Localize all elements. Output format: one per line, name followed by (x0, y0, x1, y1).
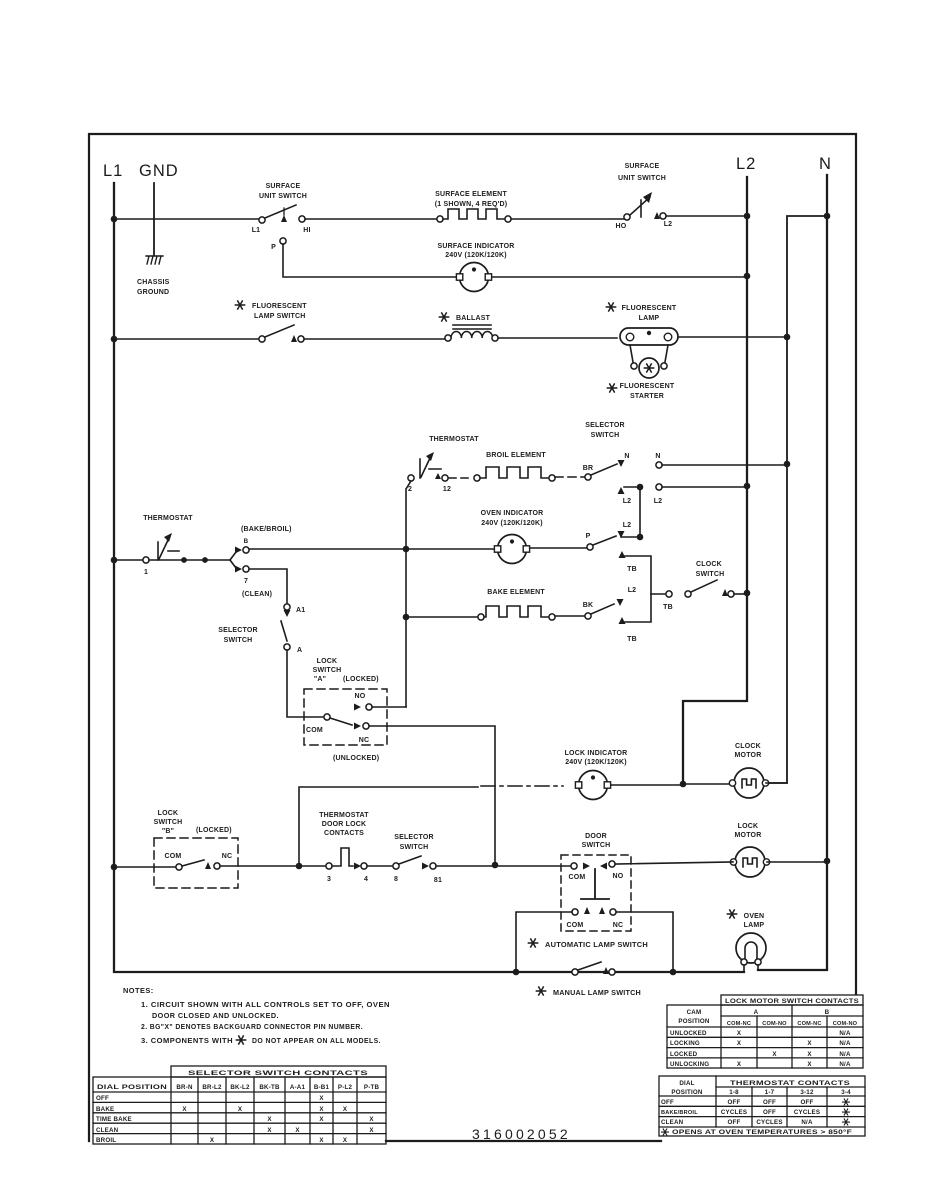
svg-text:OFF: OFF (801, 1099, 814, 1106)
svg-text:DOOR: DOOR (585, 833, 607, 840)
svg-text:SWITCH: SWITCH (313, 667, 342, 674)
wire to door lock contacts (220, 865, 326, 867)
svg-text:SELECTOR: SELECTOR (394, 834, 434, 841)
switch: surface unit switch left (252, 183, 311, 234)
junction manual row right (670, 969, 677, 976)
svg-text:DIAL POSITION: DIAL POSITION (97, 1084, 167, 1091)
svg-text:BAKE ELEMENT: BAKE ELEMENT (487, 589, 545, 596)
svg-text:(LOCKED): (LOCKED) (343, 676, 379, 683)
svg-text:P: P (271, 244, 276, 251)
svg-text:BK: BK (583, 602, 594, 609)
pin P selector terminal (587, 544, 593, 550)
svg-text:SURFACE: SURFACE (625, 163, 660, 170)
svg-text:LAMP: LAMP (744, 922, 765, 929)
lamp: fluorescent starter (607, 345, 674, 400)
svg-text:P-L2: P-L2 (338, 1084, 353, 1091)
svg-text:N: N (655, 453, 660, 460)
wire lock motor to N (767, 861, 827, 863)
svg-text:X: X (319, 1137, 324, 1144)
svg-text:81: 81 (434, 877, 442, 884)
svg-text:OPENS AT OVEN TEMPERATURES > 8: OPENS AT OVEN TEMPERATURES > 850°F (672, 1129, 852, 1136)
svg-text:P-TB: P-TB (364, 1084, 380, 1091)
svg-text:OFF: OFF (763, 1099, 776, 1106)
wire door NC2 drop (616, 912, 673, 972)
chassis ground (146, 256, 163, 264)
svg-text:316002052: 316002052 (472, 1126, 571, 1142)
svg-text:(1 SHOWN, 4 REQ'D): (1 SHOWN, 4 REQ'D) (435, 201, 508, 208)
svg-text:SURFACE ELEMENT: SURFACE ELEMENT (435, 191, 507, 198)
svg-text:NOTES:: NOTES: (123, 986, 154, 995)
svg-text:B-B1: B-B1 (314, 1084, 330, 1091)
wire row1 to element (305, 218, 437, 220)
svg-text:NO: NO (613, 873, 624, 880)
svg-text:COM: COM (165, 853, 182, 860)
svg-text:1. CIRCUIT SHOWN WITH ALL CONT: 1. CIRCUIT SHOWN WITH ALL CONTROLS SET T… (141, 1000, 390, 1009)
wire switch to ballast (304, 338, 448, 340)
svg-text:UNLOCKED: UNLOCKED (670, 1030, 707, 1037)
junction N feed/fluorescent row (784, 334, 791, 341)
switch arm BR (591, 464, 617, 475)
wire NO to vertical (372, 706, 406, 708)
wire lock indicator feed (299, 787, 478, 864)
svg-text:N: N (624, 453, 629, 460)
svg-text:BR-L2: BR-L2 (202, 1084, 222, 1091)
GND stub wire (153, 183, 155, 255)
lamp: lock indicator (565, 750, 628, 800)
wire to clock motor (683, 783, 732, 785)
svg-text:FLUORESCENT: FLUORESCENT (620, 383, 675, 390)
svg-text:1-8: 1-8 (729, 1089, 739, 1096)
svg-text:X: X (343, 1106, 348, 1113)
svg-text:FLUORESCENT: FLUORESCENT (252, 303, 307, 310)
svg-text:COM-NO: COM-NO (833, 1021, 858, 1027)
svg-text:MANUAL LAMP SWITCH: MANUAL LAMP SWITCH (553, 990, 641, 997)
svg-text:OVEN INDICATOR: OVEN INDICATOR (481, 510, 544, 517)
svg-text:L1: L1 (252, 227, 261, 234)
svg-text:L2: L2 (623, 522, 632, 529)
inductor: ballast (439, 313, 498, 341)
svg-text:3. COMPONENTS WITH: 3. COMPONENTS WITH (141, 1036, 233, 1045)
wire dashed element to BR (555, 476, 584, 478)
switch arm BK (591, 604, 614, 614)
switch arm P (593, 536, 616, 545)
L1 bus (114, 183, 744, 972)
svg-text:X: X (772, 1051, 777, 1058)
svg-text:SURFACE INDICATOR: SURFACE INDICATOR (437, 243, 514, 250)
svg-text:L2: L2 (664, 221, 673, 228)
lamp: fluorescent lamp (606, 303, 678, 345)
svg-text:L2: L2 (623, 498, 632, 505)
pin BR selector terminal (585, 474, 591, 480)
switch: selector switch A1-A (218, 604, 305, 654)
junction manual row left (513, 969, 520, 976)
switch: fluorescent lamp switch (235, 301, 307, 342)
svg-text:SWITCH: SWITCH (154, 819, 183, 826)
svg-text:COM-NC: COM-NC (797, 1021, 821, 1027)
junction L2 jog/clock motor row (680, 781, 687, 788)
switch: surface unit switch right (616, 163, 673, 230)
svg-text:L1: L1 (103, 162, 123, 180)
wire doorlock row start (114, 866, 176, 868)
junction L1/doorlock row (111, 864, 118, 871)
wire row1 L1 to switch (114, 218, 259, 220)
svg-text:THERMOSTAT: THERMOSTAT (319, 812, 369, 819)
svg-text:STARTER: STARTER (630, 393, 664, 400)
svg-text:CLOCK: CLOCK (696, 561, 722, 568)
svg-text:NC: NC (359, 737, 370, 744)
svg-text:X: X (737, 1040, 742, 1047)
lamp: surface indicator (437, 243, 514, 292)
svg-text:LOCK INDICATOR: LOCK INDICATOR (565, 750, 628, 757)
svg-text:FLUORESCENT: FLUORESCENT (622, 305, 677, 312)
svg-text:N/A: N/A (839, 1051, 851, 1058)
svg-text:NC: NC (222, 853, 233, 860)
svg-text:MOTOR: MOTOR (735, 832, 762, 839)
svg-text:X: X (267, 1116, 272, 1123)
selector TB bracket (619, 551, 667, 643)
svg-text:CONTACTS: CONTACTS (324, 830, 364, 837)
svg-text:SWITCH: SWITCH (696, 571, 725, 578)
wire oven lamp left leg (743, 965, 745, 972)
junction N/lock motor row (824, 858, 831, 865)
svg-text:3-4: 3-4 (841, 1089, 851, 1096)
wire element to BK (555, 615, 584, 617)
resistor: broil element (474, 452, 555, 481)
contact fork clean 7 (230, 560, 272, 598)
svg-text:N/A: N/A (839, 1040, 851, 1047)
junction doorlock/lock indicator feed (296, 863, 303, 870)
wire door NO to lock motor (615, 862, 733, 864)
svg-text:12: 12 (443, 486, 451, 493)
svg-text:B: B (244, 538, 249, 545)
svg-text:BAKE: BAKE (96, 1106, 114, 1113)
switch: lock switch A (304, 658, 387, 762)
svg-text:240V (120K/120K): 240V (120K/120K) (481, 520, 543, 527)
svg-text:CLEAN: CLEAN (96, 1127, 119, 1134)
svg-text:COM: COM (306, 727, 323, 734)
svg-text:240V (120K/120K): 240V (120K/120K) (445, 252, 507, 259)
svg-text:THERMOSTAT CONTACTS: THERMOSTAT CONTACTS (730, 1080, 850, 1087)
svg-text:OFF: OFF (728, 1099, 741, 1106)
switch: manual lamp switch (536, 962, 641, 997)
svg-text:COM: COM (567, 922, 584, 929)
svg-text:SELECTOR: SELECTOR (585, 422, 625, 429)
junction N feed/selector N row (784, 461, 791, 468)
svg-text:THERMOSTAT: THERMOSTAT (143, 515, 193, 522)
svg-text:L2: L2 (628, 587, 637, 594)
svg-text:SWITCH: SWITCH (400, 844, 429, 851)
pin TB clock terminal (666, 591, 672, 597)
contact BK triangle (617, 599, 624, 606)
svg-text:(BAKE/BROIL): (BAKE/BROIL) (241, 526, 292, 533)
wire P drop to indicator (283, 244, 456, 277)
svg-text:THERMOSTAT: THERMOSTAT (429, 436, 479, 443)
svg-text:X: X (182, 1106, 187, 1113)
svg-text:X: X (369, 1116, 374, 1123)
svg-text:OFF: OFF (661, 1099, 674, 1106)
wire ballast to lamp (498, 337, 617, 339)
wire bake row (406, 616, 478, 618)
svg-text:(LOCKED): (LOCKED) (196, 827, 232, 834)
svg-text:N/A: N/A (801, 1119, 813, 1126)
svg-text:BALLAST: BALLAST (456, 315, 491, 322)
svg-text:BR-N: BR-N (176, 1084, 193, 1091)
svg-text:SELECTOR SWITCH CONTACTS: SELECTOR SWITCH CONTACTS (188, 1070, 368, 1077)
svg-text:A: A (297, 647, 302, 654)
svg-text:HO: HO (616, 223, 627, 230)
svg-text:LOCKING: LOCKING (670, 1040, 700, 1047)
svg-text:SELECTOR: SELECTOR (218, 627, 258, 634)
svg-text:COM-NC: COM-NC (727, 1021, 751, 1027)
svg-text:DOOR CLOSED AND UNLOCKED.: DOOR CLOSED AND UNLOCKED. (152, 1011, 279, 1020)
svg-text:UNIT SWITCH: UNIT SWITCH (618, 175, 666, 182)
svg-text:BK-L2: BK-L2 (230, 1084, 250, 1091)
svg-text:BR: BR (583, 465, 594, 472)
junction L1/thermostat row (111, 557, 118, 564)
svg-text:DOOR LOCK: DOOR LOCK (322, 821, 367, 828)
wire A to lock switch COM (287, 650, 324, 717)
label automatic lamp switch (528, 939, 537, 947)
svg-text:A: A (754, 1009, 759, 1016)
svg-text:SWITCH: SWITCH (582, 842, 611, 849)
svg-text:DIAL: DIAL (679, 1080, 694, 1087)
L2 bus (683, 177, 747, 784)
lamp: oven lamp (727, 910, 766, 965)
svg-text:"B": "B" (162, 828, 174, 835)
pin P terminal (280, 238, 286, 244)
svg-text:(UNLOCKED): (UNLOCKED) (333, 755, 379, 762)
motor: lock motor (730, 823, 769, 877)
wire 7 to selector A1 (249, 569, 287, 603)
wire to door switch (436, 865, 571, 867)
resistor: bake element (478, 589, 555, 620)
svg-text:1: 1 (144, 569, 148, 576)
table: thermostat contacts (659, 1076, 865, 1136)
wire P contact link (621, 487, 640, 537)
svg-text:X: X (343, 1137, 348, 1144)
svg-text:2: 2 (408, 486, 412, 493)
svg-text:LOCK: LOCK (738, 823, 759, 830)
junction L1/row1 (111, 216, 118, 223)
svg-text:X: X (319, 1116, 324, 1123)
contact fork bake/broil B (230, 526, 292, 560)
svg-text:AUTOMATIC LAMP SWITCH: AUTOMATIC LAMP SWITCH (545, 942, 648, 949)
svg-text:3: 3 (327, 876, 331, 883)
switch: selector switch 8-81 (367, 834, 442, 884)
svg-text:CHASSIS: CHASSIS (137, 279, 170, 286)
wire NC to doorlock row (369, 726, 495, 863)
junction L2/row1 (744, 213, 751, 220)
svg-text:X: X (807, 1040, 812, 1047)
N bus (758, 175, 827, 970)
svg-text:X: X (238, 1106, 243, 1113)
svg-text:LAMP SWITCH: LAMP SWITCH (254, 313, 305, 320)
wire indicator to L2 jog (611, 784, 683, 786)
notes text (123, 986, 390, 1045)
svg-text:OVEN: OVEN (744, 913, 765, 920)
svg-text:4: 4 (364, 876, 368, 883)
svg-text:BROIL ELEMENT: BROIL ELEMENT (486, 452, 546, 459)
svg-text:CLEAN: CLEAN (661, 1119, 684, 1126)
junction L2/selector row (744, 483, 751, 490)
border frame (89, 134, 856, 1141)
svg-text:L2: L2 (654, 498, 663, 505)
contact P-L2 triangle (618, 531, 625, 538)
svg-text:UNLOCKING: UNLOCKING (670, 1061, 709, 1068)
svg-text:BK-TB: BK-TB (259, 1084, 280, 1091)
svg-text:GROUND: GROUND (137, 289, 169, 296)
wire door COM2 drop (516, 912, 572, 972)
svg-text:OFF: OFF (763, 1109, 776, 1116)
motor: clock motor (729, 743, 768, 798)
svg-text:CLOCK: CLOCK (735, 743, 761, 750)
resistor: surface element (435, 191, 511, 222)
svg-text:X: X (807, 1051, 812, 1058)
pin BK selector terminal (585, 613, 591, 619)
wire dashed 12 to broil element (449, 477, 473, 479)
svg-text:"A": "A" (314, 676, 326, 683)
svg-text:X: X (807, 1061, 812, 1068)
svg-text:CYCLES: CYCLES (756, 1119, 782, 1126)
svg-text:X: X (267, 1127, 272, 1134)
wire switch to L2 (666, 215, 747, 217)
svg-text:MOTOR: MOTOR (735, 752, 762, 759)
svg-text:X: X (319, 1095, 324, 1102)
svg-text:240V (120K/120K): 240V (120K/120K) (565, 759, 627, 766)
lamp: oven indicator (481, 510, 544, 564)
selector N contact row (624, 453, 787, 468)
wire B row to indicator (249, 548, 495, 550)
svg-text:CYCLES: CYCLES (794, 1109, 820, 1116)
svg-text:3-12: 3-12 (800, 1089, 814, 1096)
svg-text:LOCKED: LOCKED (670, 1051, 698, 1058)
svg-text:BAKE/BROIL: BAKE/BROIL (661, 1110, 698, 1116)
svg-text:X: X (737, 1061, 742, 1068)
svg-text:TB: TB (627, 636, 637, 643)
thermostat T1 oven thermostat left (114, 515, 230, 576)
svg-text:BROIL: BROIL (96, 1137, 116, 1144)
svg-text:B: B (825, 1009, 830, 1016)
svg-text:SWITCH: SWITCH (591, 432, 620, 439)
wire lamp to N feed (678, 336, 787, 338)
asterisk in note 3 (236, 1036, 245, 1044)
svg-text:1-7: 1-7 (765, 1089, 775, 1096)
wire element to switch (511, 218, 624, 220)
junction L1/fluorescent row (111, 336, 118, 343)
svg-text:TB: TB (627, 566, 637, 573)
svg-text:L2: L2 (736, 155, 756, 173)
svg-text:X: X (369, 1127, 374, 1134)
svg-text:NO: NO (355, 693, 366, 700)
svg-text:N/A: N/A (839, 1061, 851, 1068)
svg-text:X: X (210, 1137, 215, 1144)
switch: thermostat door lock contacts (319, 812, 369, 883)
svg-text:OFF: OFF (728, 1119, 741, 1126)
N feed wire (770, 216, 827, 783)
svg-text:X: X (295, 1127, 300, 1134)
wire clock motor to N feed (766, 782, 787, 784)
table: lock motor switch contacts (667, 995, 863, 1068)
svg-text:COM-NO: COM-NO (762, 1021, 787, 1027)
wire fluorescent row L1 to switch (114, 338, 259, 340)
svg-text:7: 7 (244, 578, 248, 585)
svg-text:UNIT SWITCH: UNIT SWITCH (259, 193, 307, 200)
thermostat T2 top (408, 436, 479, 493)
wire oven lamp right leg (757, 965, 759, 970)
svg-text:HI: HI (303, 227, 310, 234)
svg-text:POSITION: POSITION (678, 1018, 709, 1025)
switch: lock switch B (154, 810, 238, 888)
wire indicator to L2 (492, 276, 747, 278)
svg-text:8: 8 (394, 876, 398, 883)
vertical bus thermostat2 feed (406, 481, 411, 707)
svg-text:X: X (319, 1106, 324, 1113)
table: selector switch contacts (93, 1066, 386, 1144)
svg-text:2. BG"X" DENOTES BACKGUARD CON: 2. BG"X" DENOTES BACKGUARD CONNECTOR PIN… (141, 1022, 363, 1031)
junction L2/indicator row (744, 273, 751, 280)
svg-text:A-A1: A-A1 (290, 1084, 306, 1091)
svg-text:LOCK: LOCK (158, 810, 179, 817)
svg-text:NC: NC (613, 922, 624, 929)
svg-text:GND: GND (139, 162, 179, 180)
svg-text:SURFACE: SURFACE (266, 183, 301, 190)
svg-text:TB: TB (663, 604, 673, 611)
svg-text:CYCLES: CYCLES (721, 1109, 747, 1116)
svg-text:P: P (586, 533, 591, 540)
svg-text:N: N (819, 155, 832, 173)
svg-text:LOCK: LOCK (317, 658, 338, 665)
svg-text:N/A: N/A (839, 1030, 851, 1037)
junction N/top link (824, 213, 831, 220)
selector L2 contact row (618, 484, 748, 505)
svg-text:POSITION: POSITION (671, 1089, 702, 1096)
junction B row / vertical (403, 546, 410, 553)
svg-text:(CLEAN): (CLEAN) (242, 591, 272, 598)
junction L2/clock switch (744, 590, 751, 597)
svg-text:OFF: OFF (96, 1095, 109, 1102)
svg-text:COM: COM (569, 874, 586, 881)
wire indicator to P (530, 547, 586, 549)
svg-text:TIME BAKE: TIME BAKE (96, 1116, 132, 1123)
svg-text:DO NOT APPEAR ON ALL MODELS.: DO NOT APPEAR ON ALL MODELS. (252, 1036, 381, 1045)
svg-text:SWITCH: SWITCH (224, 637, 253, 644)
junction bake row (403, 614, 410, 621)
svg-text:X: X (737, 1030, 742, 1037)
svg-text:CAM: CAM (687, 1009, 702, 1016)
switch: clock switch (685, 561, 747, 597)
svg-text:A1: A1 (296, 607, 305, 614)
junction NC drop (492, 862, 499, 869)
contact BR-N triangle (618, 460, 625, 467)
svg-text:LAMP: LAMP (639, 315, 660, 322)
svg-text:LOCK MOTOR SWITCH CONTACTS: LOCK MOTOR SWITCH CONTACTS (725, 998, 859, 1005)
switch: door switch (561, 833, 631, 931)
